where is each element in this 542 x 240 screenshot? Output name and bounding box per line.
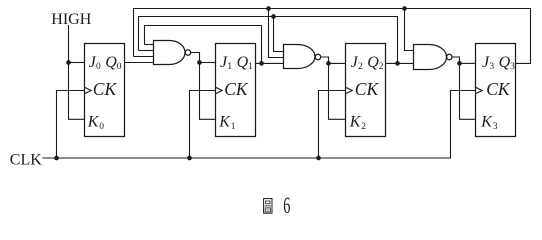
svg-text:CK: CK: [355, 79, 380, 99]
svg-text:1: 1: [231, 122, 236, 132]
svg-text:Q: Q: [499, 54, 511, 71]
svg-text:K: K: [218, 114, 231, 131]
svg-text:0: 0: [96, 62, 101, 72]
svg-text:0: 0: [99, 122, 104, 132]
svg-text:CK: CK: [93, 79, 118, 99]
svg-text:2: 2: [379, 62, 384, 72]
svg-text:K: K: [480, 114, 493, 131]
svg-text:CLK: CLK: [10, 152, 42, 169]
svg-text:3: 3: [489, 62, 494, 72]
svg-text:CK: CK: [224, 79, 249, 99]
svg-text:2: 2: [358, 62, 363, 72]
svg-text:K: K: [87, 114, 100, 131]
svg-text:1: 1: [227, 62, 232, 72]
svg-text:Q: Q: [367, 54, 379, 71]
svg-text:3: 3: [510, 62, 515, 72]
svg-text:1: 1: [248, 62, 253, 72]
svg-text:3: 3: [493, 122, 498, 132]
svg-text:K: K: [349, 114, 362, 131]
svg-text:CK: CK: [486, 79, 511, 99]
svg-text:Q: Q: [237, 54, 249, 71]
svg-text:Q: Q: [105, 54, 117, 71]
svg-text:0: 0: [117, 62, 122, 72]
svg-text:6: 6: [283, 194, 290, 219]
svg-text:2: 2: [361, 122, 366, 132]
svg-text:HIGH: HIGH: [51, 11, 91, 28]
